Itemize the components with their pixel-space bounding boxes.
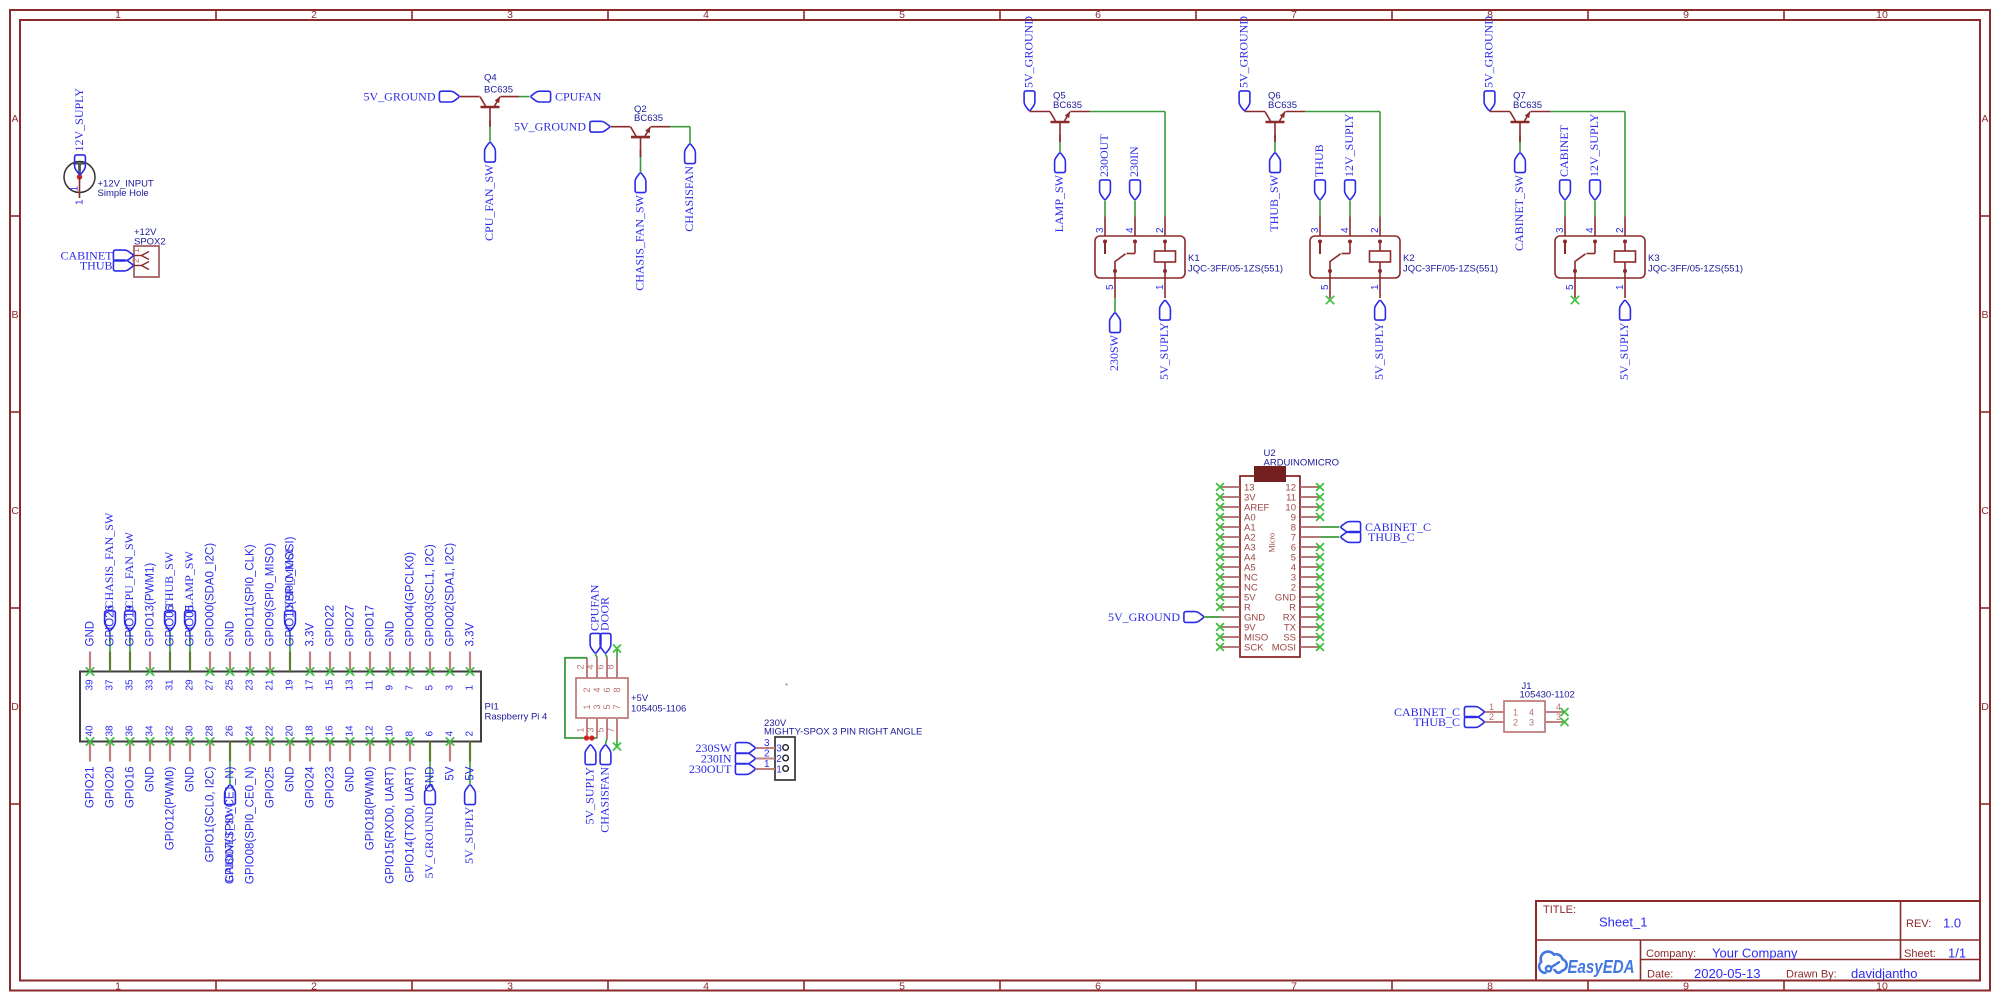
svg-text:10: 10 — [1876, 9, 1888, 21]
net flag SPI0_MOSI (PI1 pin 19) — [285, 611, 296, 631]
J1 pin 4 — [1529, 702, 1569, 718]
svg-text:5: 5 — [1565, 284, 1576, 290]
svg-text:GPIO15(RXD0, UART): GPIO15(RXD0, UART) — [385, 766, 397, 884]
svg-text:5V_SUPLY: 5V_SUPLY — [462, 806, 476, 864]
wire Q2 base to CHASIS_FAN_SW — [640, 150, 642, 172]
svg-text:davidjantho: davidjantho — [1851, 966, 1918, 981]
svg-text:CHASISFAN: CHASISFAN — [682, 166, 696, 232]
stray dot — [786, 684, 788, 686]
svg-text:GPIO24: GPIO24 — [305, 766, 317, 808]
+5V connector pin 8 — [606, 658, 623, 693]
svg-text:D: D — [11, 701, 19, 713]
svg-text:GPIO21: GPIO21 — [85, 767, 97, 809]
IC U2 ARDUINOMICRO body — [1240, 476, 1300, 657]
+5V connector pin 2 — [576, 658, 593, 693]
svg-text:5: 5 — [425, 685, 436, 691]
net flag CABINET — [113, 250, 133, 261]
svg-text:4: 4 — [703, 981, 709, 993]
svg-text:9: 9 — [1683, 981, 1689, 993]
svg-text:3: 3 — [1555, 227, 1566, 233]
svg-text:5: 5 — [1320, 284, 1331, 290]
PI1 pin 10 (GPIO15(RXD0, UART)) — [385, 725, 397, 884]
svg-text:1.0: 1.0 — [1943, 916, 1961, 931]
svg-text:BC635: BC635 — [1513, 100, 1542, 111]
svg-text:LAMP_SW: LAMP_SW — [182, 550, 196, 608]
svg-text:6: 6 — [425, 731, 436, 737]
U2 left pin AREF (row 3) — [1216, 503, 1269, 514]
wire +5V pin2 to pins 1,3 loop — [565, 658, 597, 738]
svg-text:10: 10 — [1876, 981, 1888, 993]
svg-text:2: 2 — [1513, 718, 1518, 728]
PI1 pin 21 (GPIO9(SPI0_MISO)) — [265, 543, 277, 691]
svg-text:A: A — [11, 113, 18, 125]
svg-text:2: 2 — [1615, 227, 1626, 233]
net flag THUB_C (U2) — [1341, 532, 1361, 543]
PI1 pin 33 (GPIO13(PWM1)) — [145, 563, 157, 691]
svg-text:5: 5 — [899, 9, 905, 21]
U2 right pin 4 (row 9) — [1291, 563, 1324, 574]
svg-text:JQC-3FF/05-1ZS(551): JQC-3FF/05-1ZS(551) — [1188, 264, 1283, 275]
svg-text:JQC-3FF/05-1ZS(551): JQC-3FF/05-1ZS(551) — [1648, 264, 1743, 275]
PI1 pin 24 (GPIO08(SPI0_CE0_N)) — [245, 725, 257, 884]
relay K2 pin 4 — [1340, 217, 1352, 254]
net flag CPU_FAN_SW — [485, 142, 496, 162]
svg-text:7: 7 — [606, 727, 616, 732]
svg-text:Your Company: Your Company — [1712, 946, 1798, 961]
relay K2 pin 3 — [1310, 217, 1322, 255]
relay K3 switch blade — [1575, 254, 1586, 271]
PI1 pin 1 (3.3V) — [465, 623, 477, 691]
svg-text:7: 7 — [1291, 9, 1297, 21]
svg-text:THUB_C: THUB_C — [1413, 715, 1460, 729]
svg-text:TITLE:: TITLE: — [1543, 904, 1576, 916]
net flag 5V_GROUND (Q4) — [439, 91, 459, 102]
U2 left pin NC (row 10) — [1216, 573, 1258, 584]
+5V connector pin 6 — [596, 658, 613, 693]
+5V connector pin 1 — [576, 704, 593, 738]
wire 5V_GROUND to Q6 collector — [1245, 111, 1266, 113]
U2 left pin A4 (row 8) — [1216, 553, 1256, 564]
PI1 pin 19 (GPIO10(SPI0_MOSI)) — [285, 536, 297, 690]
svg-text:CPU_FAN_SW: CPU_FAN_SW — [482, 164, 496, 241]
wire 230OUT to relay pin 3 — [1104, 201, 1106, 217]
net flag THUB_C (J1) — [1464, 717, 1484, 728]
svg-text:GPIO13(PWM1): GPIO13(PWM1) — [145, 563, 157, 647]
svg-text:D: D — [1981, 701, 1989, 713]
svg-text:10: 10 — [385, 725, 396, 737]
svg-text:29: 29 — [185, 679, 196, 691]
net flag 12V_SUPLY — [75, 155, 86, 175]
wire CPUFAN to pin 4 — [596, 654, 598, 658]
svg-text:GPIO00(SDA0_I2C): GPIO00(SDA0_I2C) — [205, 543, 217, 647]
svg-text:19: 19 — [285, 679, 296, 691]
svg-text:GPIO11(SPI0_CLK): GPIO11(SPI0_CLK) — [245, 544, 257, 646]
svg-text:1: 1 — [576, 727, 586, 732]
PI1 pin 13 (GPIO27) — [345, 605, 357, 691]
svg-text:K1: K1 — [1188, 253, 1200, 264]
svg-text:CHASISFAN: CHASISFAN — [598, 767, 612, 833]
relay K1 coil — [1155, 251, 1176, 262]
svg-text:GPIO03(SCL1, I2C): GPIO03(SCL1, I2C) — [425, 544, 437, 646]
svg-text:6: 6 — [596, 664, 606, 669]
relay K2 coil — [1370, 251, 1391, 262]
svg-text:GPIO27: GPIO27 — [345, 605, 357, 647]
svg-text:4: 4 — [1125, 227, 1136, 233]
svg-text:BC635: BC635 — [1268, 100, 1297, 111]
svg-text:2: 2 — [311, 9, 317, 21]
PI1 pin 11 (GPIO17) — [365, 605, 377, 691]
wire stub pin 8 — [616, 649, 618, 658]
svg-text:18: 18 — [305, 725, 316, 737]
wire THUB to relay pin 3 — [1319, 201, 1321, 217]
U2 right pin 10 (row 3) — [1285, 503, 1323, 514]
12V input circle (Simple Hole) — [64, 162, 95, 193]
PI1 pin 32 (GPIO12(PWM0)) — [165, 725, 177, 850]
svg-text:5V_GROUND: 5V_GROUND — [1237, 16, 1251, 88]
connector PI1 Raspberry Pi 4 body — [80, 672, 481, 742]
PI1 pin 17 (3.3V) — [305, 623, 317, 691]
svg-text:CPUFAN: CPUFAN — [555, 90, 602, 104]
svg-text:3: 3 — [507, 981, 513, 993]
PI1 pin 27 (GPIO00(SDA0_I2C)) — [205, 543, 217, 691]
svg-text:230OUT: 230OUT — [1097, 134, 1111, 177]
svg-text:THUB: THUB — [80, 259, 113, 273]
svg-text:16: 16 — [325, 725, 336, 737]
wire 12V_SUPLY to relay pin 4 — [1349, 201, 1351, 217]
transistor Q4 — [480, 97, 500, 127]
svg-text:5V_GROUND: 5V_GROUND — [364, 90, 436, 104]
svg-text:12V_SUPLY: 12V_SUPLY — [1587, 113, 1601, 177]
svg-text:1: 1 — [776, 765, 782, 776]
svg-text:8: 8 — [405, 731, 416, 737]
svg-text:27: 27 — [205, 679, 216, 691]
transistor Q6 — [1265, 112, 1285, 142]
svg-text:Company:: Company: — [1646, 948, 1696, 960]
svg-text:32: 32 — [165, 725, 176, 737]
svg-text:4: 4 — [1529, 708, 1534, 718]
+5V connector pin 3 — [586, 704, 603, 738]
svg-text:37: 37 — [105, 679, 116, 691]
+5V connector pin 4 — [586, 658, 603, 693]
svg-text:1: 1 — [1489, 702, 1494, 712]
frame row letters — [11, 113, 1989, 713]
relay K2 pin 2 coil lead — [1370, 217, 1382, 252]
U2 left pin SCK (row 17) — [1216, 643, 1264, 654]
svg-text:GND: GND — [225, 621, 237, 647]
svg-text:REV:: REV: — [1906, 918, 1931, 930]
transistor Q5 — [1050, 112, 1070, 142]
U2 left pin 13 (row 1) — [1216, 483, 1254, 494]
net flag 5V_GROUND (U2) — [1184, 612, 1204, 623]
U2 right pin 6 (row 7) — [1291, 543, 1324, 554]
title block Drawn By — [1786, 966, 1918, 981]
U2 left pin R (row 13) — [1216, 603, 1251, 614]
230V connector pin 2 — [756, 749, 788, 766]
wire stub pin 7 — [616, 739, 618, 747]
svg-text:5V_GROUND: 5V_GROUND — [1022, 16, 1036, 88]
wire 5V_GROUND to Q2 collector — [611, 126, 631, 128]
svg-text:DOOR: DOOR — [598, 597, 612, 631]
svg-text:2: 2 — [776, 754, 782, 765]
svg-text:Sheet_1: Sheet_1 — [1599, 915, 1647, 930]
svg-text:1: 1 — [70, 186, 81, 192]
PI1 pin 31 (GPIO06) — [165, 605, 177, 691]
svg-text:5V_SUPLY: 5V_SUPLY — [1617, 322, 1631, 380]
svg-text:1: 1 — [582, 704, 592, 709]
net flag DOOR — [600, 633, 611, 653]
U2 left pin A1 (row 5) — [1216, 523, 1256, 534]
net flag CHASISFAN — [685, 144, 696, 164]
net flag 5V_GROUND (PI1 pin 6) — [425, 785, 436, 805]
relay K3 pin 5 — [1565, 269, 1577, 298]
svg-text:1: 1 — [115, 981, 121, 993]
U2 right pin SS (row 16) — [1283, 633, 1324, 644]
svg-text:GND: GND — [185, 767, 197, 793]
net flag CHASIS_FAN_SW (PI1 pin 37) — [105, 611, 116, 631]
relay K2 pin 1 — [1370, 262, 1382, 298]
net flag 5V_SUPLY (K1) — [1160, 300, 1171, 320]
svg-text:BC635: BC635 — [1053, 100, 1082, 111]
transistor Q7 — [1510, 112, 1530, 142]
wire Q2 emitter to CHASISFAN — [651, 127, 690, 143]
svg-text:1: 1 — [1155, 284, 1166, 290]
J1 pin 2 — [1484, 712, 1518, 728]
PI1 pin 25 (GND) — [225, 621, 237, 691]
PI1 pin 29 (GPIO05) — [185, 605, 197, 691]
svg-text:17: 17 — [305, 679, 316, 691]
svg-text:1: 1 — [75, 199, 86, 205]
no-connect X pin 8 — [613, 645, 621, 653]
U2 right pin 5 (row 8) — [1291, 553, 1324, 564]
svg-text:CABINET_SW: CABINET_SW — [222, 806, 236, 883]
U2 right pin 8 — [1291, 523, 1340, 534]
svg-text:2: 2 — [1489, 712, 1494, 722]
svg-text:3: 3 — [1095, 227, 1106, 233]
12V input pad — [73, 164, 86, 175]
svg-text:4: 4 — [703, 9, 709, 21]
net flag 5V_GROUND (Q6) — [1239, 91, 1250, 111]
svg-text:ARDUINOMICRO: ARDUINOMICRO — [1264, 458, 1339, 469]
svg-text:1: 1 — [1615, 284, 1626, 290]
svg-text:7: 7 — [405, 685, 416, 691]
svg-text:Raspberry Pi 4: Raspberry Pi 4 — [485, 712, 548, 723]
svg-text:40: 40 — [85, 725, 96, 737]
svg-text:2: 2 — [1155, 227, 1166, 233]
frame column ticks — [216, 10, 1784, 991]
svg-text:CHASIS_FAN_SW: CHASIS_FAN_SW — [633, 194, 647, 290]
wire CABINET to relay pin 3 — [1564, 201, 1566, 217]
PI1 pin 26 (GPIO07(SPI0_CE1_N)) — [225, 725, 237, 884]
junction dot 5V_SUPLY — [589, 735, 594, 740]
wire Q4 base to CPU_FAN_SW — [489, 120, 491, 142]
svg-text:5: 5 — [596, 727, 606, 732]
svg-text:3: 3 — [776, 744, 782, 755]
relay K1 switch blade — [1115, 254, 1126, 271]
svg-text:7: 7 — [612, 704, 622, 709]
PI1 pin 28 (GPIO1(SCL0, I2C)) — [205, 725, 217, 862]
svg-text:2: 2 — [1370, 227, 1381, 233]
svg-text:GPIO18(PWM0): GPIO18(PWM0) — [365, 766, 377, 850]
net flag CABINET_C (U2) — [1341, 522, 1361, 533]
svg-text:1: 1 — [1370, 284, 1381, 290]
net flag CHASISFAN (connector) — [600, 745, 611, 765]
net flag 5V_SUPLY (K3) — [1620, 300, 1631, 320]
net flag 12V_SUPLY — [1345, 180, 1356, 200]
svg-text:THUB: THUB — [1312, 144, 1326, 177]
EasyEDA logo — [1539, 952, 1634, 977]
svg-text:GPIO14(TXD0, UART): GPIO14(TXD0, UART) — [405, 766, 417, 882]
svg-text:9: 9 — [385, 685, 396, 691]
U2 left pin MISO (row 16) — [1216, 633, 1268, 644]
wire Q6 emitter to relay pin 2 — [1286, 112, 1381, 217]
svg-text:A: A — [1981, 113, 1988, 125]
svg-text:MIGHTY-SPOX 3 PIN RIGHT ANGLE: MIGHTY-SPOX 3 PIN RIGHT ANGLE — [764, 727, 922, 738]
svg-text:B: B — [1981, 309, 1988, 321]
svg-text:6: 6 — [602, 687, 612, 692]
svg-text:THUB_SW: THUB_SW — [1267, 174, 1281, 231]
svg-text:8: 8 — [612, 687, 622, 692]
svg-text:34: 34 — [145, 725, 156, 737]
svg-text:1: 1 — [465, 685, 476, 691]
svg-text:33: 33 — [145, 679, 156, 691]
svg-text:5V_SUPLY: 5V_SUPLY — [583, 767, 597, 825]
connector +12V SPOX2 body — [134, 246, 159, 277]
PI1 pin 2 (5V) — [465, 731, 477, 785]
junction dot 12V input — [77, 174, 82, 179]
U2 left pin A3 (row 7) — [1216, 543, 1256, 554]
U2 left pin NC (row 11) — [1216, 583, 1258, 594]
wire 230IN to relay pin 4 — [1134, 201, 1136, 217]
PI1 pin 4 (5V) — [445, 731, 457, 781]
relay K1 pin 1 — [1155, 262, 1167, 298]
PI1 pin 39 (GND) — [85, 621, 97, 691]
svg-text:105405-1106: 105405-1106 — [631, 704, 686, 715]
svg-text:GND: GND — [85, 621, 97, 647]
relay K3 body — [1555, 236, 1645, 278]
svg-text:1: 1 — [115, 9, 121, 21]
wire relay pin 5 to 230SW — [1114, 298, 1116, 312]
svg-text:C: C — [1981, 505, 1989, 517]
U2 left pin A5 (row 9) — [1216, 563, 1256, 574]
svg-text:GPIO02(SDA1, I2C): GPIO02(SDA1, I2C) — [445, 543, 457, 647]
svg-text:CHASIS_FAN_SW: CHASIS_FAN_SW — [102, 512, 116, 608]
svg-text:GND: GND — [345, 767, 357, 793]
svg-text:GND: GND — [385, 621, 397, 647]
net flag 5V_SUPLY (connector) — [585, 745, 596, 765]
svg-text:B: B — [11, 309, 18, 321]
relay K1 pin 3 — [1095, 217, 1107, 255]
PI1 pin 37 (GPIO26) — [105, 605, 117, 691]
transistor Q2 — [631, 127, 651, 157]
wire Q7 base to CABINET_SW — [1519, 135, 1521, 152]
wire Q7 emitter to relay pin 2 — [1531, 112, 1626, 217]
svg-text:12: 12 — [365, 725, 376, 737]
net flag 230IN — [735, 753, 755, 764]
no-connect X pin 7 — [613, 743, 621, 751]
PI1 pin 38 (GPIO20) — [105, 725, 117, 808]
svg-text:1: 1 — [764, 759, 770, 770]
J1 pin 3 — [1529, 712, 1569, 728]
PI1 pin 5 (GPIO03(SCL1, I2C)) — [425, 544, 437, 690]
U2 right pin 7 — [1291, 533, 1340, 544]
net flag CPU_FAN_SW (PI1 pin 35) — [125, 611, 136, 631]
PI1 pin 15 (GPIO22) — [325, 605, 337, 691]
svg-text:35: 35 — [125, 679, 136, 691]
PI1 pin 14 (GND) — [345, 725, 357, 792]
svg-text:THUB_C: THUB_C — [1368, 530, 1415, 544]
svg-text:5V: 5V — [465, 766, 477, 780]
svg-text:3: 3 — [1556, 712, 1561, 722]
svg-text:GPIO12(PWM0): GPIO12(PWM0) — [165, 766, 177, 850]
svg-text:14: 14 — [345, 725, 356, 737]
svg-text:3: 3 — [445, 685, 456, 691]
svg-text:38: 38 — [105, 725, 116, 737]
net flag THUB_SW (PI1 pin 31) — [165, 611, 176, 631]
svg-text:4: 4 — [1340, 227, 1351, 233]
svg-text:5V_GROUND: 5V_GROUND — [422, 806, 436, 878]
title block — [1536, 901, 1980, 981]
wire Q6 base to THUB_SW — [1274, 135, 1276, 152]
svg-text:JQC-3FF/05-1ZS(551): JQC-3FF/05-1ZS(551) — [1403, 264, 1498, 275]
net flag 5V_GROUND (Q2) — [590, 121, 610, 132]
wire 12V input pin 1 — [79, 177, 81, 198]
svg-text:3.3V: 3.3V — [465, 623, 477, 647]
svg-text:8: 8 — [606, 664, 616, 669]
PI1 pin 3 (GPIO02(SDA1, I2C)) — [445, 543, 457, 691]
svg-text:2: 2 — [465, 731, 476, 737]
svg-text:4: 4 — [586, 664, 596, 669]
svg-text:2: 2 — [582, 687, 592, 692]
svg-text:25: 25 — [225, 679, 236, 691]
U2 right pin 12 (row 1) — [1285, 483, 1323, 494]
PI1 pin 7 (GPIO04(GPCLK0)) — [405, 552, 417, 691]
net flag CPUFAN (connector) — [590, 633, 601, 653]
relay K3 pin 4 — [1585, 217, 1597, 254]
SPOX2 pin 1 — [131, 248, 149, 260]
svg-text:12V_SUPLY: 12V_SUPLY — [72, 88, 86, 152]
svg-text:GPIO04(GPCLK0): GPIO04(GPCLK0) — [405, 552, 417, 647]
svg-text:CPU_FAN_SW: CPU_FAN_SW — [122, 531, 136, 608]
U2 left pin GND — [1205, 613, 1266, 624]
relay K1 pin 4 — [1125, 217, 1137, 254]
title block Company — [1646, 946, 1798, 961]
net flag 5V_GROUND (Q7) — [1484, 91, 1495, 111]
svg-text:GPIO1(SCL0, I2C): GPIO1(SCL0, I2C) — [205, 766, 217, 862]
svg-text:4: 4 — [445, 731, 456, 737]
svg-text:28: 28 — [205, 725, 216, 737]
svg-text:5V_SUPLY: 5V_SUPLY — [1157, 322, 1171, 380]
svg-text:Date:: Date: — [1647, 969, 1673, 981]
svg-text:230IN: 230IN — [1127, 146, 1141, 177]
svg-text:6: 6 — [1095, 9, 1101, 21]
svg-text:31: 31 — [165, 679, 176, 691]
PI1 pin 12 (GPIO18(PWM0)) — [365, 725, 377, 850]
relay K2 body — [1310, 236, 1400, 278]
net flag CABINET_C (J1) — [1464, 707, 1484, 718]
svg-text:22: 22 — [265, 725, 276, 737]
U2 right pin 9 (row 4) — [1291, 513, 1324, 524]
svg-text:21: 21 — [265, 679, 276, 691]
net flag LAMP_SW — [1055, 153, 1066, 173]
svg-text:THUB_SW: THUB_SW — [162, 551, 176, 608]
PI1 pin 9 (GND) — [385, 621, 397, 691]
svg-text:26: 26 — [225, 725, 236, 737]
svg-text:5V_GROUND: 5V_GROUND — [1482, 16, 1496, 88]
net flag 12V_SUPLY — [1590, 180, 1601, 200]
svg-text:K2: K2 — [1403, 253, 1415, 264]
svg-text:6: 6 — [1095, 981, 1101, 993]
+5V connector pin 5 — [596, 704, 613, 738]
